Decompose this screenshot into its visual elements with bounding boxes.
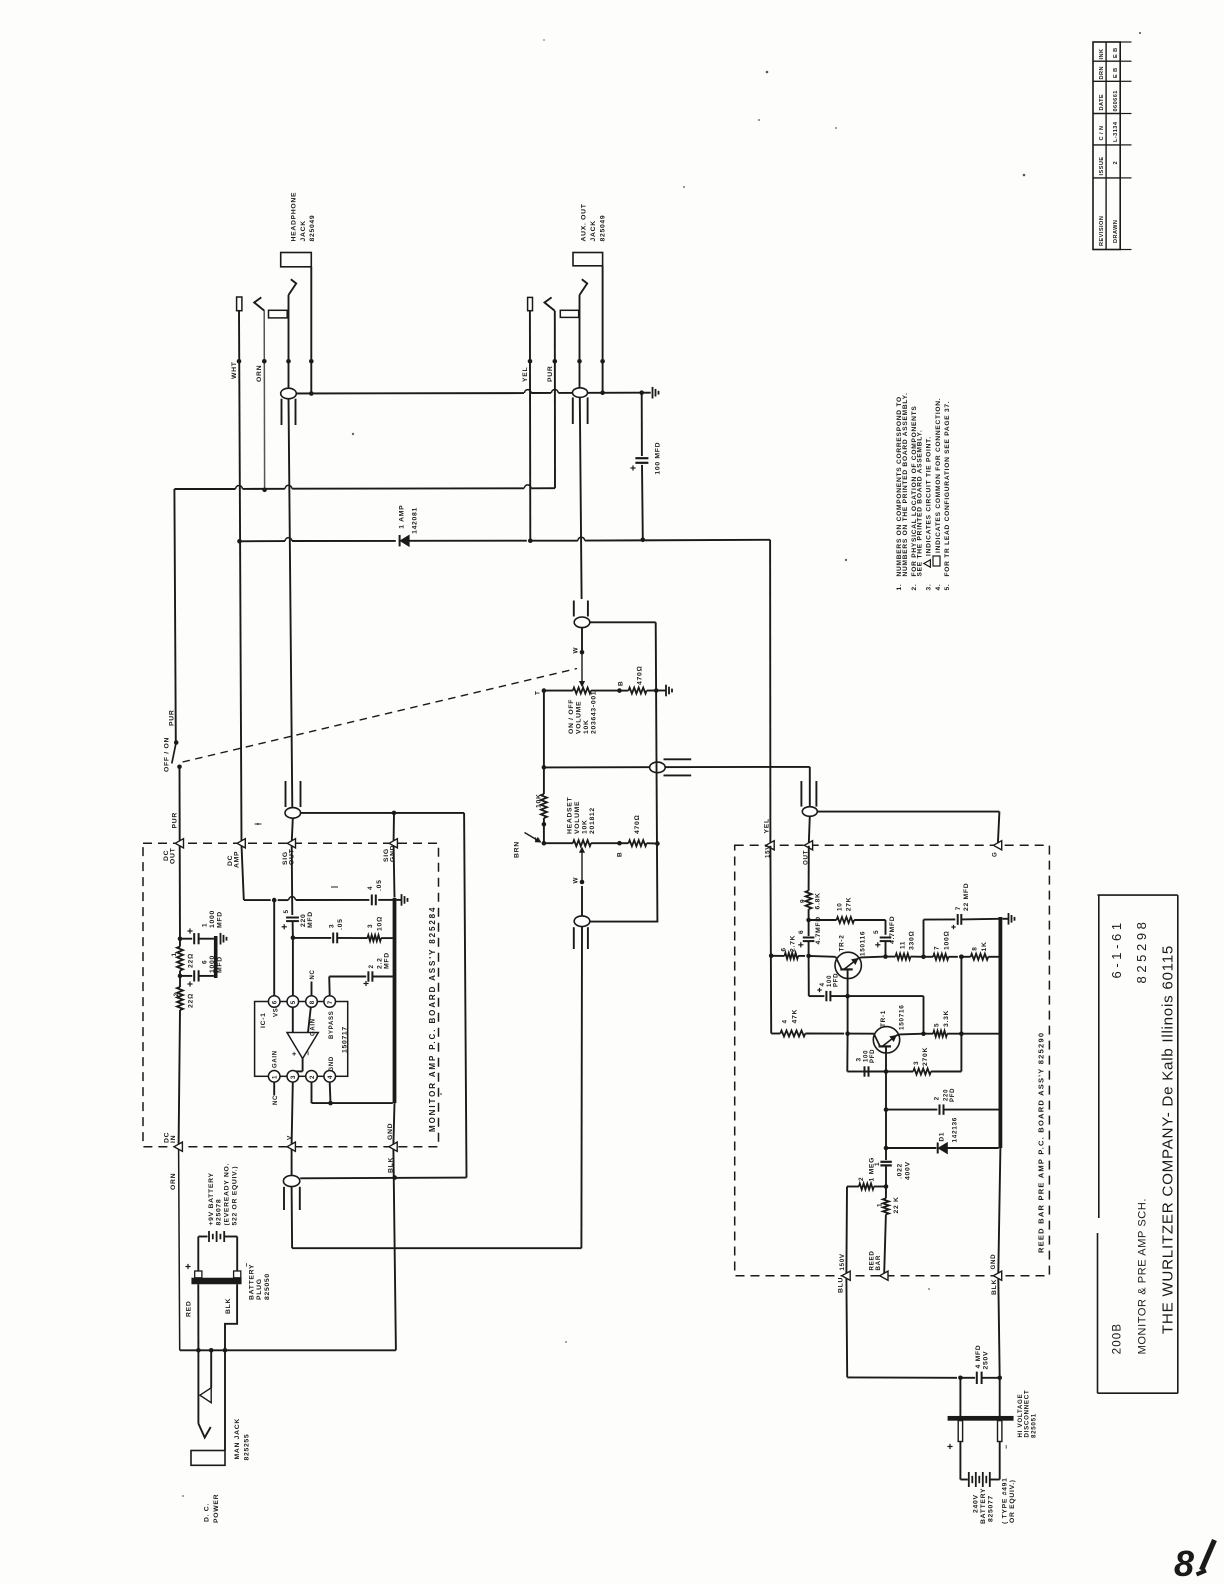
aux out jack 825049 sleeve — [573, 253, 603, 393]
tie point 15V — [765, 841, 775, 858]
svg-text:1 MEG: 1 MEG — [869, 1157, 876, 1182]
IC-1 pin 5 — [287, 996, 299, 1008]
svg-text:4.7MFD: 4.7MFD — [889, 916, 896, 944]
wire SIG OUT to cap — [291, 846, 294, 915]
svg-text:JACK: JACK — [590, 220, 597, 241]
wire ORN battery feed — [170, 1149, 180, 1350]
svg-text:1K: 1K — [981, 941, 988, 951]
svg-text:8: 8 — [972, 946, 979, 950]
tie point 150V — [838, 1253, 851, 1293]
tie point DC OUT — [163, 839, 184, 864]
tie point SIG GND — [383, 839, 397, 862]
svg-text:VS: VS — [274, 1008, 280, 1017]
svg-text:BATTERY: BATTERY — [980, 1488, 987, 1524]
svg-text:TR-1: TR-1 — [880, 1010, 887, 1027]
label D.C. POWER — [204, 1494, 221, 1523]
svg-text:GAIN: GAIN — [273, 1050, 279, 1068]
wire pin3 output to V — [292, 1082, 293, 1144]
svg-text:VOLUME: VOLUME — [574, 801, 581, 834]
svg-text:4: 4 — [327, 1075, 334, 1079]
svg-text:REED BAR PRE AMP P.C. BOARD: REED BAR PRE AMP P.C. BOARD ASS'Y 825290 — [1037, 1032, 1046, 1253]
label GND (pin4) — [329, 1056, 335, 1071]
ground (C4) — [396, 894, 407, 906]
wire YEL supply down to reed board — [769, 540, 771, 846]
svg-text:MFD: MFD — [307, 911, 314, 928]
wire sleeve ground bus — [281, 389, 651, 395]
svg-text:4 MFD: 4 MFD — [975, 1345, 982, 1369]
svg-text:PLUG: PLUG — [256, 1278, 263, 1300]
labels MAN JACK 825255 — [234, 1418, 251, 1460]
svg-text:2: 2 — [368, 964, 375, 968]
capacitor 100 MFD (supply filter) — [630, 393, 661, 542]
shielded cable aux tip (pot end) — [574, 601, 590, 652]
svg-text:.05: .05 — [376, 879, 383, 891]
svg-text:150V: 150V — [839, 1253, 846, 1270]
aux out jack tip contact — [580, 279, 588, 388]
svg-text:1: 1 — [272, 1075, 279, 1079]
svg-text:100: 100 — [864, 1050, 870, 1062]
capacitor C5r 4.7MFD — [873, 916, 896, 957]
notes item 4 — [933, 398, 942, 591]
svg-text:142136: 142136 — [952, 1117, 959, 1143]
svg-text:2: 2 — [173, 992, 180, 996]
tie point GND (reed) — [990, 1254, 1002, 1295]
svg-text:27K: 27K — [846, 897, 853, 912]
wire pin6 feed — [273, 900, 275, 996]
ground (reed board) — [1002, 913, 1014, 925]
svg-text:5: 5 — [290, 1000, 297, 1004]
svg-text:2: 2 — [858, 1177, 865, 1181]
wire DC AMP to pin 6 rail — [244, 897, 369, 903]
svg-text:825049: 825049 — [600, 215, 607, 242]
monitor amp board dashed outline — [143, 843, 439, 1146]
ground bus bar (monitor board) — [393, 898, 397, 1103]
svg-text:1000: 1000 — [209, 910, 216, 928]
svg-text:11: 11 — [900, 941, 907, 949]
diode 1 AMP 142081 — [399, 505, 419, 547]
svg-text:PFD: PFD — [870, 1049, 876, 1063]
svg-text:.05: .05 — [337, 918, 344, 930]
wire V to speaker cable — [291, 1149, 293, 1176]
label 150717 — [342, 1026, 349, 1053]
wire BLK run (reed) — [997, 1278, 1002, 1380]
wire 15V bus — [769, 846, 780, 1034]
capacitor C6 1000 MFD — [180, 955, 224, 987]
wire WHT vertical — [239, 311, 244, 900]
svg-text:MAN JACK: MAN JACK — [234, 1418, 241, 1459]
tie point G (reed) — [992, 841, 1002, 857]
capacitor C3r 100 PFD — [847, 1034, 888, 1077]
svg-text:BAR: BAR — [875, 1255, 882, 1271]
wire signal ground bus — [590, 622, 658, 921]
svg-text:IN: IN — [170, 1135, 177, 1143]
svg-text:1: 1 — [877, 1203, 884, 1207]
wire shield run to SIG GND — [300, 811, 466, 1180]
svg-text:200B: 200B — [1112, 1323, 1124, 1355]
man jack sleeve — [191, 1350, 225, 1465]
svg-text:6: 6 — [798, 930, 805, 934]
svg-text:6-1-61: 6-1-61 — [1109, 919, 1124, 978]
IC-1 pin 7 — [324, 996, 336, 1008]
junction dots aux connector row — [528, 359, 605, 364]
svg-text:MONITOR AMP P.C. BOARD ASS'Y: MONITOR AMP P.C. BOARD ASS'Y 825284 — [428, 906, 437, 1132]
man jack tip contact — [198, 1350, 210, 1437]
svg-text:060661: 060661 — [1113, 90, 1119, 111]
resistor R4 47K — [780, 996, 850, 1036]
svg-text:150716: 150716 — [899, 1004, 906, 1030]
svg-text:150116: 150116 — [860, 931, 867, 956]
shielded cable aux tip (top end) — [573, 388, 588, 599]
svg-text:.022: .022 — [897, 1163, 904, 1179]
label GAIN (pin1) — [273, 1050, 279, 1068]
resistor R3r 270K — [886, 955, 964, 1075]
battery 240V 825077 — [960, 1442, 999, 1488]
wire TR-2 collector run — [848, 996, 926, 1036]
capacitor C6l 4.7MFD — [798, 916, 822, 956]
svg-text:825051: 825051 — [1031, 1413, 1038, 1438]
label B (on/off pot) — [618, 681, 625, 686]
wire PUR contact — [545, 297, 555, 310]
svg-text:OR EQUIV.): OR EQUIV.) — [1009, 1479, 1016, 1523]
mechanical gang dashed line — [183, 669, 578, 763]
svg-text:4: 4 — [782, 1019, 789, 1023]
svg-text:220: 220 — [944, 1089, 950, 1101]
aux out jack ring tab — [560, 310, 578, 317]
svg-text:INK: INK — [1099, 49, 1105, 60]
wire BLU run — [846, 1278, 962, 1380]
ground (on/off pot 470) — [666, 685, 672, 697]
wire BLK battery lead — [225, 1284, 237, 1350]
label WHT (jack) — [231, 361, 238, 379]
svg-text:AUX. OUT: AUX. OUT — [581, 203, 588, 241]
svg-text:GAIN: GAIN — [311, 1018, 317, 1036]
wire RED battery lead — [186, 1284, 199, 1350]
svg-text:YEL: YEL — [522, 367, 529, 382]
svg-text:270K: 270K — [922, 1047, 929, 1066]
svg-text:22 K: 22 K — [893, 1196, 900, 1213]
label REED BAR board — [1037, 1032, 1046, 1253]
svg-text:10: 10 — [837, 902, 844, 911]
svg-text:AMP: AMP — [234, 851, 241, 868]
capacitor C3 .05 — [293, 918, 368, 943]
svg-text:ORN: ORN — [256, 365, 263, 382]
svg-text:C / N: C / N — [1099, 126, 1105, 141]
IC-1 pin 1 — [268, 1071, 280, 1083]
svg-text:825255: 825255 — [244, 1434, 251, 1461]
svg-text:−: − — [1004, 1445, 1011, 1449]
wire ground bar to GND tie (reed) — [998, 1148, 1000, 1273]
wire pin8 NC stub — [310, 969, 316, 995]
transistor TR-1 150716 — [848, 1004, 906, 1071]
battery plug 825050 — [185, 1263, 271, 1300]
svg-text:330Ω: 330Ω — [909, 931, 916, 950]
svg-text:5: 5 — [934, 1023, 941, 1027]
headphone jack 825049 sleeve — [281, 253, 312, 394]
label PUR (DC OUT) — [172, 812, 179, 828]
wire PUR to DC OUT — [179, 767, 181, 843]
svg-text:IC-1: IC-1 — [260, 1012, 267, 1028]
wiper arrow (on/off pot) — [580, 650, 585, 686]
svg-text:REVISION: REVISION — [1099, 216, 1105, 246]
potentiometer HEADSET VOLUME 10K 201812 — [542, 840, 622, 846]
headphone jack ring tab — [269, 310, 288, 318]
label IC-1 — [260, 1012, 267, 1028]
svg-text:HEADPHONE: HEADPHONE — [291, 192, 298, 242]
notes item 3 — [924, 436, 933, 590]
svg-text:825078: 825078 — [216, 1199, 223, 1226]
svg-text:22Ω: 22Ω — [188, 953, 195, 968]
svg-text:6.8K: 6.8K — [815, 892, 822, 909]
capacitor 4 MFD 250V — [960, 1345, 999, 1384]
wire battery common — [180, 1348, 396, 1353]
tie point V — [287, 1135, 296, 1151]
svg-text:OFF / ON: OFF / ON — [164, 737, 171, 772]
wire supply rail (22 ohm chain) — [178, 846, 183, 1144]
svg-text:2.7K: 2.7K — [790, 935, 797, 952]
label HEADPHONE JACK 825049 — [291, 192, 317, 242]
wire diode supply line (right) — [409, 537, 770, 543]
svg-text:7: 7 — [327, 1000, 334, 1004]
resistor R2r 1 MEG — [846, 1157, 886, 1273]
svg-text:22Ω: 22Ω — [188, 993, 195, 1008]
svg-text:(EVEREADY NO.: (EVEREADY NO. — [224, 1163, 231, 1226]
svg-text:THE WURLITZER COMPANY- De Ka: THE WURLITZER COMPANY- De Kalb Illinois … — [1160, 945, 1177, 1334]
svg-text:ON / OFF: ON / OFF — [568, 699, 575, 734]
resistor R10 27K — [809, 897, 886, 935]
resistor 470 ohm (on/off pot) — [620, 688, 667, 694]
svg-text:B: B — [618, 681, 625, 686]
svg-text:142081: 142081 — [412, 507, 419, 534]
svg-text:9: 9 — [800, 899, 807, 903]
svg-text:TR-2: TR-2 — [839, 934, 846, 951]
svg-text:+9V BATTERY: +9V BATTERY — [208, 1172, 215, 1225]
wire cable shield to G — [817, 812, 999, 844]
svg-text:6: 6 — [272, 1000, 279, 1004]
revision table — [1093, 42, 1132, 250]
wire ORN/switch feed line — [174, 485, 555, 492]
svg-text:OUT: OUT — [170, 847, 177, 864]
notes item 5 — [944, 401, 951, 591]
wire TR-1 emitter row — [899, 1033, 933, 1036]
IC-1 pin 4 — [324, 1071, 336, 1083]
svg-text:10K: 10K — [583, 719, 590, 734]
resistor R7 100 ohm — [924, 931, 964, 960]
label PUR (jack) — [547, 366, 554, 382]
svg-text:DATE: DATE — [1099, 94, 1105, 111]
svg-text:E B: E B — [1113, 67, 1119, 78]
svg-text:470Ω: 470Ω — [634, 815, 641, 834]
svg-text:DRAWN: DRAWN — [1113, 220, 1119, 243]
svg-text:WHT: WHT — [231, 361, 238, 379]
svg-text:HEADSET: HEADSET — [567, 796, 574, 834]
svg-text:B: B — [617, 852, 624, 857]
svg-text:1.: 1. — [896, 584, 903, 591]
svg-text:MFD: MFD — [384, 952, 391, 969]
capacitor C2r 220 PFD — [886, 1088, 999, 1115]
shielded cable V output — [283, 1175, 299, 1248]
switch OFF/ON — [172, 740, 182, 769]
svg-text:D. C.: D. C. — [204, 1503, 211, 1522]
wire ORN vertical — [263, 311, 265, 490]
svg-text:2: 2 — [934, 1096, 941, 1100]
label MONITOR AMP board — [428, 906, 437, 1132]
svg-text:2.: 2. — [911, 584, 918, 591]
svg-text:3: 3 — [329, 924, 336, 928]
tie point SIG OUT — [282, 839, 296, 865]
svg-text:GND: GND — [329, 1056, 335, 1071]
resistor R11 330 ohm — [895, 931, 923, 960]
wire diode supply line (left) — [237, 538, 396, 544]
capacitor C1r .022 400V — [874, 1148, 912, 1189]
svg-text:3: 3 — [290, 1075, 297, 1079]
headphone jack tip contact — [289, 279, 297, 388]
svg-text:INDICATES CIRCUIT TIE POINT: INDICATES CIRCUIT TIE POINT. — [926, 436, 933, 556]
svg-text:MONITOR & PRE AMP SCH.: MONITOR & PRE AMP SCH. — [1137, 1198, 1149, 1354]
label OFF/ON — [164, 737, 171, 772]
svg-text:BLK: BLK — [225, 1298, 232, 1314]
svg-text:150717: 150717 — [342, 1026, 349, 1053]
resistor R8 1K — [961, 941, 998, 959]
page number 18 — [1174, 1540, 1215, 1584]
tie point REED BAR — [869, 1251, 889, 1281]
svg-text:L-3134: L-3134 — [1113, 121, 1119, 142]
scan specks — [182, 32, 1141, 1497]
resistor R3 10 ohm — [367, 916, 393, 941]
svg-text:−: − — [304, 1051, 313, 1056]
labels 240V BATTERY 825077 — [973, 1477, 1017, 1524]
shielded cable headset wiper (ellipse) — [574, 886, 590, 1248]
potentiometer ON/OFF VOLUME 10K 203643-001 — [542, 688, 622, 694]
capacitor C2 2.2 MFD — [363, 952, 392, 986]
svg-text:5.: 5. — [944, 584, 951, 591]
ground bus bar (reed board) — [999, 917, 1003, 1148]
svg-text:2: 2 — [1113, 161, 1119, 165]
svg-text:6: 6 — [781, 947, 788, 951]
svg-text:PUR: PUR — [172, 812, 179, 828]
notes item 1 — [896, 392, 909, 590]
resistor 10K (between pots) — [541, 794, 547, 843]
resistor R2 22 ohm — [173, 987, 195, 1010]
svg-text:DISCONNECT: DISCONNECT — [1024, 1390, 1031, 1438]
svg-text:240V: 240V — [973, 1494, 980, 1513]
labels ON/OFF VOLUME 10K 203643-001 — [568, 691, 598, 734]
svg-text:250V: 250V — [983, 1351, 990, 1370]
svg-text:4: 4 — [819, 982, 826, 986]
svg-text:SEE THE PRINTED BOARD ASSE: SEE THE PRINTED BOARD ASSEMBLY. — [917, 430, 924, 577]
wire ground bar to GND tie — [393, 1103, 394, 1144]
svg-text:4.: 4. — [935, 584, 942, 591]
labels HEADSET VOLUME 10K 201812 — [567, 796, 597, 834]
svg-text:7: 7 — [955, 906, 962, 910]
label ORN (jack) — [256, 365, 263, 382]
resistor R1 22 ohm — [171, 947, 195, 971]
label AUX. OUT JACK 825049 — [581, 203, 607, 241]
wire YEL vertical — [529, 311, 531, 541]
resistor 470 ohm (headset pot) — [620, 840, 660, 846]
svg-text:6: 6 — [202, 960, 209, 964]
svg-text:GND: GND — [990, 1254, 997, 1270]
label T (on/off pot) — [535, 690, 542, 695]
svg-text:MFD: MFD — [217, 911, 224, 928]
svg-text:RED: RED — [186, 1301, 193, 1317]
svg-text:1: 1 — [171, 952, 178, 956]
label 470 ohm (headset pot) — [634, 815, 641, 834]
diode D1 142136 — [884, 1110, 999, 1154]
resistor R1r 22K — [877, 1187, 901, 1274]
resistor R5 3.3K — [933, 1010, 999, 1037]
resistor R9 6.8K — [800, 846, 822, 923]
svg-text:10Ω: 10Ω — [377, 916, 384, 931]
svg-text:DRN: DRN — [1099, 66, 1105, 79]
label BLK (monitor) — [388, 1157, 395, 1173]
shielded cable signal (left end) — [650, 759, 692, 775]
svg-text:ISSUE: ISSUE — [1099, 156, 1105, 175]
svg-text:G: G — [992, 851, 999, 857]
svg-text:JACK: JACK — [300, 220, 307, 241]
reed bar board dashed outline — [735, 845, 1050, 1275]
IC-1 box — [255, 1002, 348, 1077]
op-amp IC-1 triangle — [287, 1007, 318, 1071]
svg-text:BATTERY: BATTERY — [249, 1264, 256, 1300]
wire PUR vertical — [554, 311, 556, 489]
label 10K (between pots) — [536, 793, 543, 808]
svg-text:T: T — [535, 690, 542, 695]
label PUR (switch) — [169, 710, 176, 726]
svg-text:PFD: PFD — [950, 1088, 956, 1102]
transistor TR-2 150116 — [809, 931, 867, 996]
svg-text:W: W — [573, 877, 580, 884]
tie point OUT (reed) — [803, 841, 813, 865]
svg-text:VOLUME: VOLUME — [576, 701, 583, 734]
labels +9V BATTERY 825078 — [208, 1163, 239, 1226]
resistor R6 2.7K — [771, 935, 811, 959]
wire SIG GND to bus bar — [393, 846, 396, 898]
svg-text:4.7MFD: 4.7MFD — [815, 916, 822, 944]
wire pins 2/4 to ground bar — [312, 1082, 393, 1105]
IC-1 pin 2 — [306, 1071, 318, 1083]
svg-text:8: 8 — [309, 1000, 316, 1004]
svg-text:2: 2 — [309, 1075, 316, 1079]
ground (aux sleeve bus) — [653, 387, 659, 399]
wire headset T signal line — [544, 766, 810, 769]
tie point GND (monitor) — [387, 1123, 397, 1152]
svg-text:10K: 10K — [582, 819, 589, 834]
svg-text:W: W — [573, 647, 580, 654]
label 470 ohm (on/off pot) — [637, 666, 644, 685]
svg-text:8: 8 — [1174, 1543, 1194, 1584]
svg-text:NC: NC — [273, 1095, 279, 1105]
svg-text:825050: 825050 — [264, 1273, 271, 1300]
svg-text:NUMBERS ON THE PRINTED BOA: NUMBERS ON THE PRINTED BOARD ASSEMBLY. — [902, 392, 909, 576]
svg-text:1: 1 — [202, 923, 209, 927]
IC-1 pin 8 — [306, 996, 318, 1008]
svg-text:201812: 201812 — [589, 807, 596, 834]
svg-text:PUR: PUR — [547, 366, 554, 382]
wire TR-1 collector down — [884, 1072, 889, 1112]
label W (on/off pot) — [573, 647, 580, 654]
tie point DC AMP — [227, 839, 245, 868]
svg-text:D1: D1 — [939, 1132, 946, 1142]
wire emitter node up / cap7 — [921, 919, 955, 959]
svg-text:2.2: 2.2 — [377, 957, 384, 969]
wire WHT tab contact — [237, 297, 242, 311]
IC-1 pin 6 — [268, 996, 280, 1008]
wiper arrow (headset pot) — [573, 848, 585, 885]
svg-text:1 AMP: 1 AMP — [399, 505, 406, 529]
man jack make contact — [200, 1350, 211, 1402]
svg-text:100 MFD: 100 MFD — [655, 442, 662, 475]
capacitor C7 22 MFD — [951, 883, 998, 930]
